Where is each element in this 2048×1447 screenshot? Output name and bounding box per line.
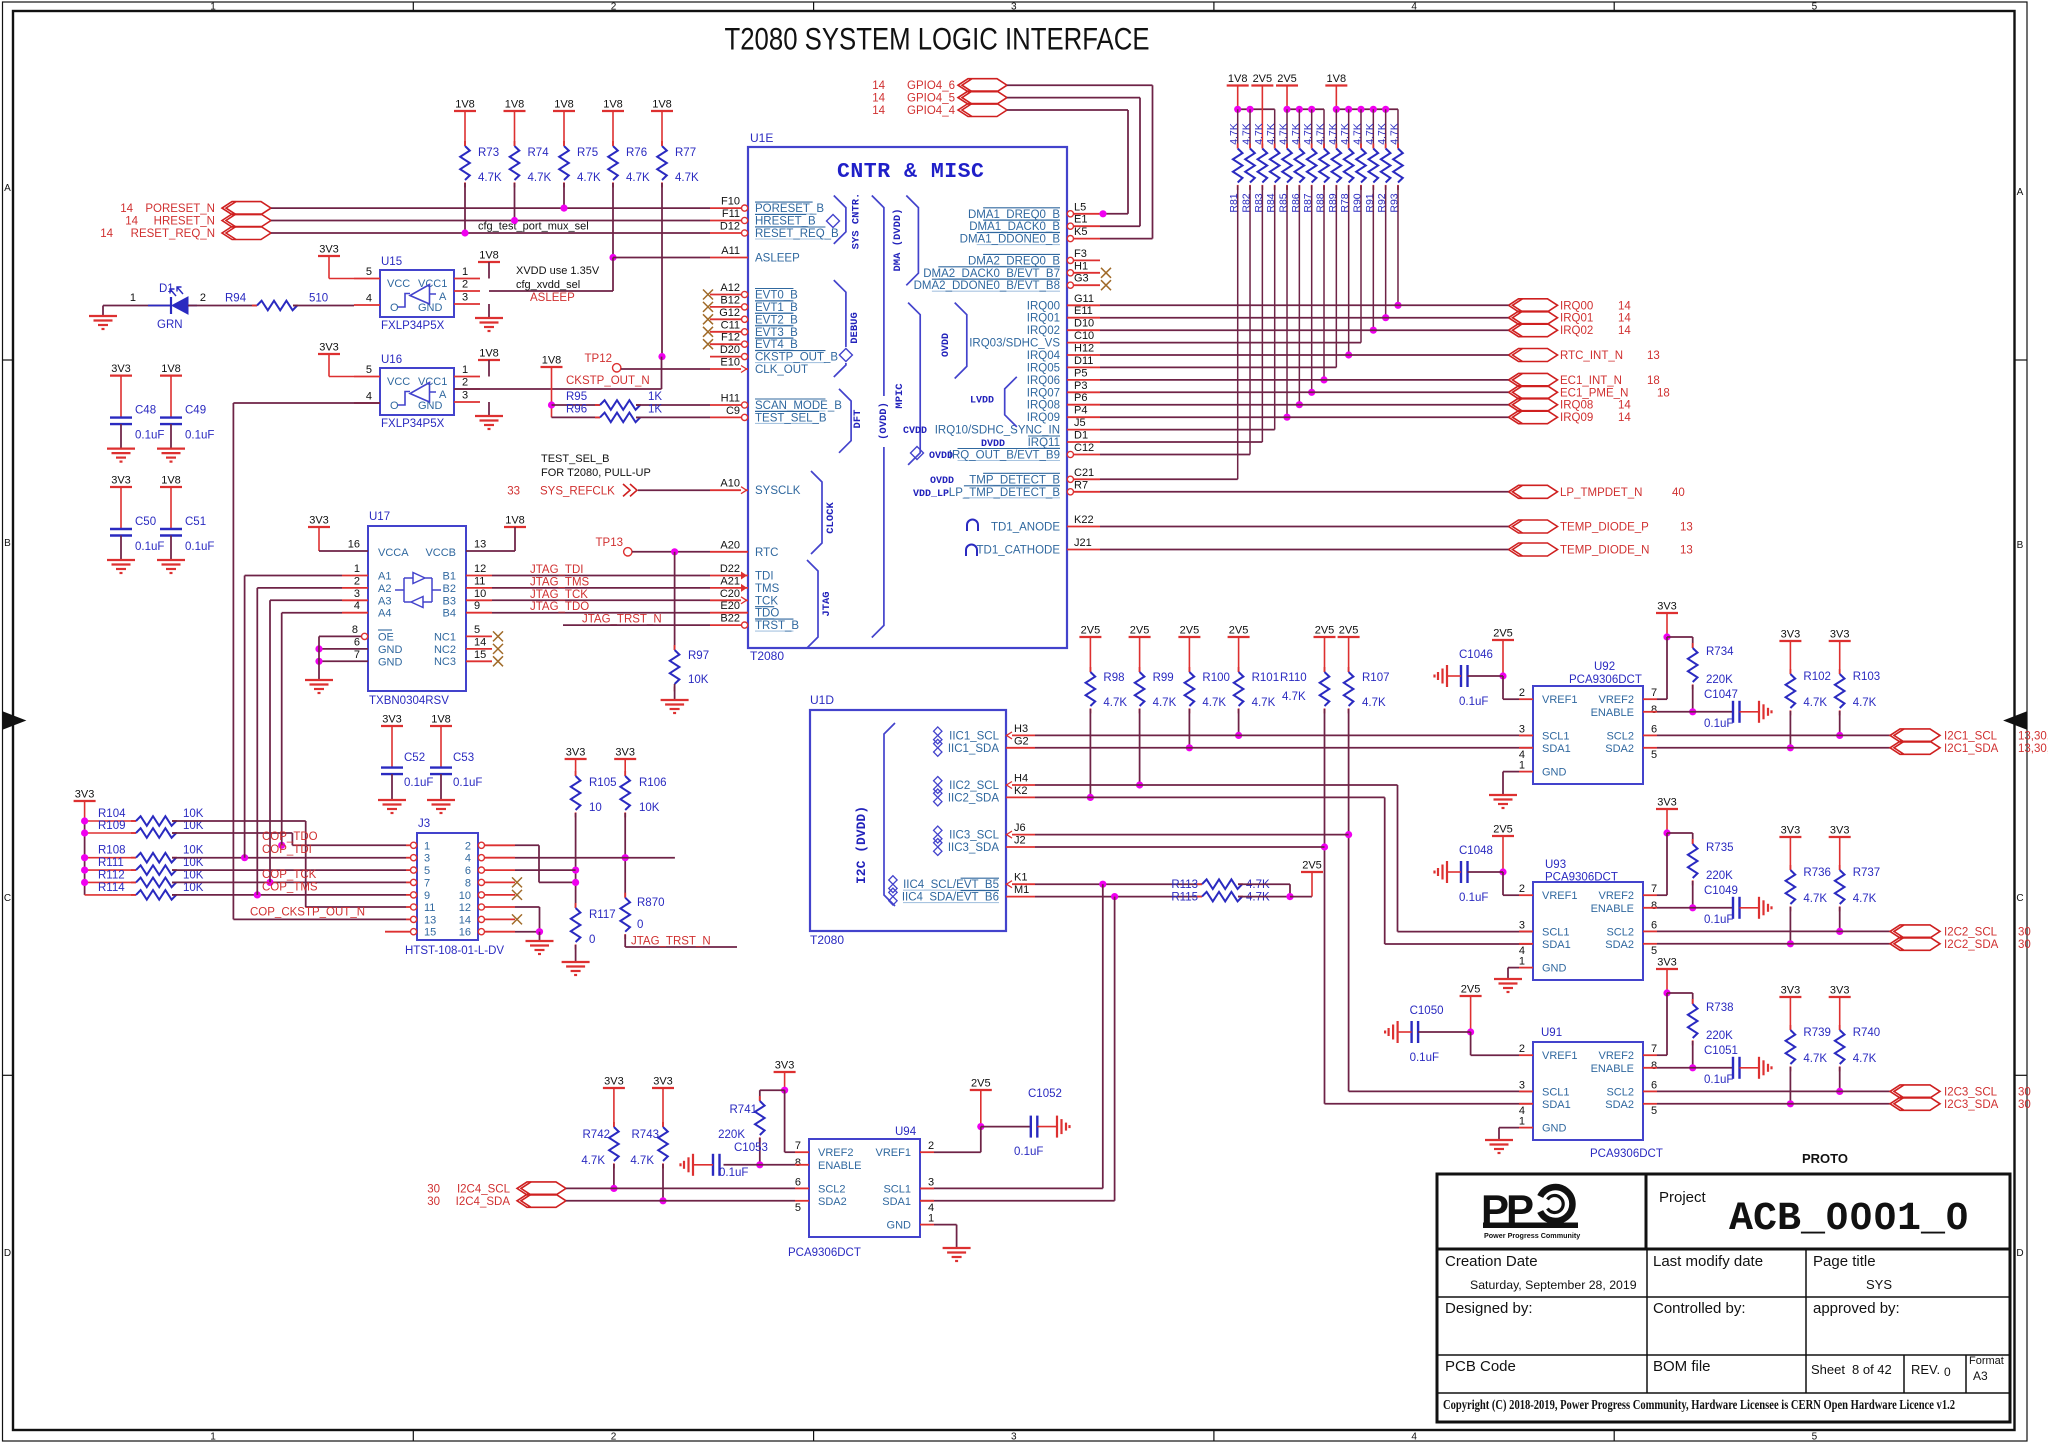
T2080 I2C block U1D	[810, 710, 1006, 931]
wire TP13 to RTC	[632, 551, 710, 553]
svg-text:VREF2: VREF2	[1599, 890, 1634, 902]
svg-text:1V8: 1V8	[505, 99, 525, 111]
svg-text:4.7K: 4.7K	[1376, 123, 1388, 145]
svg-text:14: 14	[872, 80, 885, 92]
svg-text:NC1: NC1	[434, 631, 456, 643]
U1E group bracket MPIC	[908, 303, 920, 465]
U15 pin 4	[354, 304, 380, 306]
U1E pin A10 SYSCLK	[710, 489, 748, 491]
resistor R73 4.7K	[464, 141, 466, 146]
svg-text:U92: U92	[1594, 661, 1615, 673]
U17 pin 3 A3	[342, 599, 368, 601]
U1E TD1_CATHODE cap symbol	[966, 545, 977, 557]
resistor R103 4.7K	[1839, 669, 1841, 674]
svg-text:R95: R95	[566, 391, 587, 403]
U1E pin P5 IRQ06	[1067, 379, 1100, 381]
COP connector J3 HTST-108-01-L-DV	[417, 833, 478, 940]
svg-text:1V8: 1V8	[652, 99, 672, 111]
U1E pin J5 IRQ10/SDHC_SYNC_IN	[1067, 429, 1100, 431]
J3 pin 5	[406, 869, 411, 871]
resistor R99 4.7K	[1139, 667, 1141, 672]
svg-text:0: 0	[1944, 1365, 1951, 1379]
J3 pin 2	[484, 844, 515, 846]
resistor R77 4.7K	[661, 141, 663, 146]
svg-text:K2: K2	[1014, 785, 1027, 797]
svg-text:4.7K: 4.7K	[1803, 1053, 1827, 1065]
svg-text:A12: A12	[720, 282, 740, 294]
svg-text:7: 7	[1651, 1043, 1657, 1055]
svg-text:0.1uF: 0.1uF	[1410, 1052, 1439, 1064]
svg-text:2: 2	[462, 279, 468, 291]
svg-text:T2080 SYSTEM LOGIC INTERFACE: T2080 SYSTEM LOGIC INTERFACE	[725, 21, 1150, 57]
svg-text:TD1_CATHODE: TD1_CATHODE	[977, 545, 1061, 557]
svg-text:GND: GND	[1542, 963, 1567, 975]
svg-text:2V5: 2V5	[1081, 625, 1101, 637]
svg-text:SDA2: SDA2	[1605, 939, 1634, 951]
svg-text:0.1uF: 0.1uF	[135, 430, 164, 442]
U17 pin 2 A2	[342, 587, 368, 589]
svg-text:DMA2_DDONE0_B/EVT_B8: DMA2_DDONE0_B/EVT_B8	[914, 280, 1060, 292]
U1E group bracket OVDD (IRQ00-05)	[955, 303, 967, 379]
resistor R85 4.7K pull-up	[1286, 109, 1288, 148]
wire R90 to IRQ row	[1360, 186, 1362, 343]
svg-text:2: 2	[1519, 687, 1525, 699]
svg-text:C1049: C1049	[1704, 885, 1738, 897]
svg-text:C11: C11	[721, 319, 740, 331]
wire 3V3 to U91 VREF2	[1666, 993, 1668, 1055]
svg-text:L5: L5	[1074, 201, 1086, 213]
wire R96 to TEST_SEL_B	[636, 416, 710, 418]
svg-text:TCK: TCK	[755, 595, 778, 607]
svg-text:PCB Code: PCB Code	[1445, 1358, 1516, 1375]
wire GPIO4_5	[1007, 97, 1140, 99]
svg-text:ENABLE: ENABLE	[1591, 1063, 1634, 1075]
svg-text:3V3: 3V3	[775, 1060, 795, 1072]
svg-text:R741: R741	[730, 1104, 758, 1116]
J3 pin 8	[484, 881, 515, 883]
svg-text:15: 15	[424, 927, 436, 939]
svg-text:4.7K: 4.7K	[1302, 123, 1314, 145]
svg-text:C12: C12	[1074, 442, 1094, 454]
wire R102 down	[1789, 711, 1791, 748]
svg-text:IIC4_SDA/EVT_B6: IIC4_SDA/EVT_B6	[902, 892, 999, 904]
wire to RTC_INT_N flag	[1100, 354, 1509, 356]
resistor R735 220K	[1667, 832, 1693, 834]
svg-text:IRQ_OUT_B/EVT_B9: IRQ_OUT_B/EVT_B9	[949, 450, 1060, 462]
svg-text:J3: J3	[418, 818, 430, 830]
svg-text:U93: U93	[1545, 859, 1566, 871]
svg-text:GRN: GRN	[157, 319, 183, 331]
svg-text:IRQ02: IRQ02	[1027, 325, 1060, 337]
U1E pin G3 DMA2_DDONE0_B/EVT_B8	[1073, 284, 1100, 286]
svg-text:H4: H4	[1014, 773, 1028, 785]
wire R735 to ENABLE	[1692, 881, 1694, 908]
svg-text:0.1uF: 0.1uF	[404, 777, 433, 789]
svg-text:D12: D12	[720, 221, 740, 233]
title block logo/project divider	[1645, 1174, 1648, 1249]
svg-text:LP_TMPDET_N: LP_TMPDET_N	[1560, 487, 1642, 499]
svg-text:1: 1	[928, 1213, 934, 1225]
svg-text:A20: A20	[720, 539, 740, 551]
resistor R97 10K pulldown on RTC	[674, 552, 676, 650]
wire IIC4_SCL (K1)	[1035, 883, 1202, 885]
ground (U15 pin3)	[488, 304, 490, 318]
U1E pin B12 EVT1_B	[710, 306, 742, 308]
wire R87 to IRQ row	[1311, 186, 1313, 393]
svg-text:I2C1_SDA: I2C1_SDA	[1944, 743, 1999, 755]
svg-text:F11: F11	[722, 208, 740, 220]
U16 pin 5	[354, 376, 380, 378]
svg-text:4.7K: 4.7K	[1228, 123, 1240, 145]
svg-text:2: 2	[611, 1432, 617, 1443]
wire R738 to ENABLE	[1692, 1041, 1694, 1068]
svg-text:R96: R96	[566, 404, 587, 416]
wire R737 down	[1839, 907, 1841, 931]
svg-text:K1: K1	[1014, 872, 1027, 884]
wire U17 OE/GND to ground	[318, 636, 320, 680]
svg-text:FOR T2080, PULL-UP: FOR T2080, PULL-UP	[541, 467, 651, 479]
svg-text:R742: R742	[583, 1129, 611, 1141]
svg-text:VREF2: VREF2	[818, 1147, 853, 1159]
svg-text:SCAN_MODE_B: SCAN_MODE_B	[755, 400, 842, 412]
svg-text:1: 1	[462, 364, 468, 376]
svg-text:O: O	[390, 302, 399, 314]
svg-text:12: 12	[474, 563, 486, 575]
wire RESET_REQ_N	[271, 232, 710, 234]
svg-text:J5: J5	[1074, 417, 1086, 429]
svg-text:4.7K: 4.7K	[1241, 123, 1253, 145]
svg-text:IRQ09: IRQ09	[1027, 412, 1060, 424]
svg-text:4.7K: 4.7K	[1246, 892, 1270, 904]
svg-text:P6: P6	[1074, 392, 1087, 404]
ground (U94)	[943, 1247, 971, 1249]
wire ASLEEP pin A11	[613, 257, 710, 259]
capacitor C1049 0.1uF	[1732, 897, 1734, 919]
hex flag LP_TMPDET_N	[1509, 485, 1558, 498]
svg-text:11: 11	[474, 575, 485, 587]
wire JTAG_TCK	[492, 599, 710, 601]
ground (U92)	[1489, 794, 1517, 796]
svg-text:R740: R740	[1853, 1027, 1881, 1039]
svg-text:1V8: 1V8	[542, 355, 562, 367]
svg-text:A: A	[2017, 187, 2024, 198]
svg-text:2V5: 2V5	[1339, 625, 1359, 637]
svg-text:GND: GND	[378, 656, 403, 668]
svg-text:C1050: C1050	[1410, 1005, 1444, 1017]
svg-text:TEST_SEL_B: TEST_SEL_B	[755, 412, 827, 424]
svg-text:4.7K: 4.7K	[1339, 123, 1351, 145]
svg-text:3V3: 3V3	[382, 714, 402, 726]
wire IRQ row to R81	[1100, 478, 1238, 480]
svg-text:R76: R76	[626, 147, 647, 159]
svg-text:R870: R870	[637, 897, 665, 909]
resistor R111 10K	[85, 869, 136, 871]
svg-text:2: 2	[465, 840, 471, 852]
I2C level shifter U91 PCA9306DCT	[1533, 1042, 1643, 1140]
svg-text:4.7K: 4.7K	[1803, 697, 1827, 709]
U1E pin A21 TMS	[710, 587, 748, 589]
svg-text:VCC: VCC	[387, 376, 410, 388]
wire to TEMP_DIODE_N flag	[1100, 549, 1509, 551]
svg-text:I2C2_SCL: I2C2_SCL	[1944, 926, 1998, 938]
svg-text:0.1uF: 0.1uF	[719, 1167, 748, 1179]
svg-text:1: 1	[1519, 760, 1525, 772]
svg-text:VREF1: VREF1	[1542, 694, 1577, 706]
U1E pin A11 ASLEEP	[710, 257, 748, 259]
svg-text:4.7K: 4.7K	[528, 172, 552, 184]
svg-text:3V3: 3V3	[319, 342, 339, 354]
wire IIC2_SDA (K2)	[1035, 796, 1385, 798]
U1E group bracket DMA (DVDD)	[906, 196, 918, 286]
svg-text:C48: C48	[135, 405, 156, 417]
U1E pin H1 DMA2_DACK0_B/EVT_B7	[1073, 272, 1100, 274]
svg-text:10: 10	[459, 890, 471, 902]
ground (D1 anode side)	[102, 306, 104, 317]
svg-text:4: 4	[354, 600, 360, 612]
svg-text:R99: R99	[1153, 672, 1174, 684]
resistor R78 4.7K pull-up	[1348, 109, 1350, 148]
J3 pin 4	[484, 857, 515, 859]
svg-text:4.7K: 4.7K	[1282, 691, 1306, 703]
svg-text:TDI: TDI	[755, 571, 774, 583]
wire IIC1_SCL (H3 to U92 SCL1)	[1035, 734, 1533, 736]
svg-text:10K: 10K	[183, 869, 204, 881]
svg-text:SYSCLK: SYSCLK	[755, 485, 801, 497]
svg-text:2: 2	[611, 2, 617, 13]
wire 2V5 to U91 VREF1	[1470, 1032, 1472, 1055]
svg-text:IIC2_SCL: IIC2_SCL	[949, 780, 999, 792]
svg-text:D20: D20	[720, 344, 740, 356]
svg-text:0.1uF: 0.1uF	[453, 777, 482, 789]
U17 pin 5 NC1	[466, 635, 492, 637]
resistor R98 4.7K	[1089, 667, 1091, 672]
wire 2V5 to U92 VREF1	[1502, 676, 1504, 699]
svg-text:SCL2: SCL2	[1606, 1086, 1634, 1098]
capacitor C53 0.1uF	[430, 766, 452, 768]
svg-text:1V8: 1V8	[455, 99, 475, 111]
svg-text:3V3: 3V3	[566, 747, 586, 759]
svg-text:(OVDD): (OVDD)	[878, 402, 890, 440]
svg-text:C1047: C1047	[1704, 689, 1738, 701]
hex flag I2C4_SCL	[517, 1182, 566, 1195]
I2C level shifter U94 PCA9306DCT	[809, 1139, 920, 1237]
U1E input diamond HRESET	[827, 215, 840, 228]
svg-text:E20: E20	[720, 600, 740, 612]
svg-text:R101: R101	[1252, 672, 1280, 684]
svg-text:DMA1_DDONE0_B: DMA1_DDONE0_B	[960, 234, 1061, 246]
U1D pin J2 IIC3_SDA	[1006, 846, 1035, 848]
svg-text:C51: C51	[185, 516, 206, 528]
U16 pin 1	[454, 376, 480, 378]
svg-text:ENABLE: ENABLE	[818, 1160, 861, 1172]
svg-text:0.1uF: 0.1uF	[135, 541, 164, 553]
svg-text:U1D: U1D	[810, 693, 834, 707]
svg-text:R738: R738	[1706, 1002, 1734, 1014]
resistor R74 4.7K	[514, 141, 516, 146]
ground (at C1050)	[1396, 1021, 1398, 1043]
hex flag EC1_PME_N	[1509, 386, 1558, 399]
svg-text:14: 14	[872, 93, 885, 105]
wire R94 to U15 pin4	[293, 305, 354, 307]
wire GPIO4_6	[1007, 84, 1153, 86]
svg-text:220K: 220K	[1706, 674, 1733, 686]
hex flag GPIO4_6	[958, 79, 1007, 92]
svg-text:4.7K: 4.7K	[1853, 1053, 1877, 1065]
svg-text:CKSTP_OUT_N: CKSTP_OUT_N	[566, 375, 650, 387]
U1E group bracket LVDD (IRQ06-09)	[1005, 377, 1017, 427]
svg-text:R77: R77	[675, 147, 696, 159]
svg-text:SYS: SYS	[1866, 1277, 1892, 1292]
svg-text:IRQ07: IRQ07	[1027, 387, 1060, 399]
resistor R87 4.7K pull-up	[1311, 109, 1313, 148]
U1E pin C10 IRQ03/SDHC_VS	[1067, 342, 1100, 344]
svg-text:7: 7	[354, 649, 360, 661]
hex flag I2C1_SDA	[1890, 741, 1940, 754]
svg-text:COP_TCK: COP_TCK	[262, 869, 317, 881]
wire U16 pin4 to COP header	[233, 402, 380, 404]
wire R74 to HRESET_N	[514, 183, 516, 221]
svg-text:Format: Format	[1969, 1355, 2004, 1367]
svg-text:C: C	[2016, 893, 2023, 904]
border zone ticks bottom	[412, 1430, 414, 1441]
wire R99 to I2C row	[1139, 709, 1141, 785]
svg-text:LP_TMP_DETECT_B: LP_TMP_DETECT_B	[949, 487, 1061, 499]
svg-text:R743: R743	[632, 1129, 660, 1141]
svg-text:30: 30	[2018, 1086, 2031, 1098]
svg-text:30: 30	[2018, 926, 2031, 938]
svg-text:1: 1	[210, 1432, 216, 1443]
svg-text:BOM file: BOM file	[1653, 1358, 1711, 1375]
svg-text:OVDD: OVDD	[930, 476, 954, 487]
wire J3 pin16 to ground	[515, 931, 540, 933]
wire U17.A3 column	[269, 600, 271, 882]
svg-text:EC1_INT_N: EC1_INT_N	[1560, 375, 1622, 387]
svg-text:Designed by:: Designed by:	[1445, 1300, 1533, 1317]
svg-text:GND: GND	[1542, 767, 1567, 779]
svg-text:R104: R104	[98, 808, 126, 820]
U1E pin D22 TDI	[710, 575, 748, 577]
ground (at C1049)	[1758, 897, 1760, 919]
svg-text:1V8: 1V8	[1327, 73, 1347, 85]
capacitor C1051 0.1uF	[1732, 1057, 1734, 1079]
svg-text:I2C3_SDA: I2C3_SDA	[1944, 1099, 1999, 1111]
U1E pin K22 TD1_ANODE	[1067, 526, 1100, 528]
svg-text:4.7K: 4.7K	[1252, 697, 1276, 709]
svg-text:1: 1	[1519, 956, 1525, 968]
resistor R101 4.7K	[1238, 667, 1240, 672]
U17 pin 14 NC2	[466, 648, 492, 650]
U1E pin F11 HRESET_B	[710, 220, 742, 222]
svg-text:I2C2_SDA: I2C2_SDA	[1944, 939, 1999, 951]
no-connect EVT0_B	[703, 290, 713, 300]
U1E pin G11 IRQ00	[1067, 304, 1100, 306]
svg-text:VREF1: VREF1	[1542, 1050, 1577, 1062]
svg-text:SCL1: SCL1	[1542, 926, 1570, 938]
resistor R870 0	[624, 893, 626, 898]
svg-text:B4: B4	[443, 608, 456, 620]
resistor R114 10K	[85, 894, 136, 896]
svg-text:3: 3	[354, 588, 360, 600]
no-connect EVT4_B	[703, 339, 713, 349]
svg-text:5: 5	[1812, 1432, 1818, 1443]
wire R95 to SCAN_MODE_B	[636, 404, 710, 406]
capacitor C1047 0.1uF	[1732, 701, 1734, 723]
svg-text:R735: R735	[1706, 842, 1734, 854]
svg-text:3V3: 3V3	[1781, 985, 1801, 997]
wire R100 to I2C row	[1188, 709, 1190, 748]
svg-text:TMP_DETECT_B: TMP_DETECT_B	[969, 474, 1060, 486]
hex flag IRQ00	[1509, 299, 1558, 312]
resistor R109 10K	[85, 832, 136, 834]
svg-text:2V5: 2V5	[1461, 984, 1481, 996]
svg-text:IIC1_SDA: IIC1_SDA	[948, 743, 999, 755]
wire IRQ row to R83	[1100, 441, 1262, 443]
svg-text:COP_TMS: COP_TMS	[262, 882, 318, 894]
ground (at C1051)	[1758, 1057, 1760, 1079]
svg-text:13: 13	[1680, 545, 1693, 557]
capacitor C1052 0.1uF	[981, 1126, 1031, 1128]
svg-text:14: 14	[120, 203, 133, 215]
no-connect J3 pin8	[512, 877, 522, 887]
T2080 CNTR & MISC block U1E	[748, 147, 1067, 648]
svg-text:4.7K: 4.7K	[1853, 697, 1877, 709]
svg-text:Copyright (C) 2018-2019, Power: Copyright (C) 2018-2019, Power Progress …	[1443, 1397, 1955, 1412]
svg-text:I2C3_SCL: I2C3_SCL	[1944, 1086, 1998, 1098]
U15 pin 1	[454, 278, 480, 280]
svg-text:IRQ10/SDHC_SYNC_IN: IRQ10/SDHC_SYNC_IN	[935, 425, 1060, 437]
svg-text:0.1uF: 0.1uF	[1704, 1074, 1733, 1086]
svg-text:C50: C50	[135, 516, 156, 528]
svg-text:14: 14	[125, 215, 138, 227]
resistor R86 4.7K pull-up	[1298, 109, 1300, 148]
svg-text:IRQ01: IRQ01	[1027, 313, 1060, 325]
J3 pin 10	[484, 894, 515, 896]
svg-text:3V3: 3V3	[1830, 825, 1850, 837]
resistor R91 4.7K pull-up	[1372, 109, 1374, 148]
wire U93 SDA2 to flag	[1657, 943, 1890, 945]
svg-text:14: 14	[474, 636, 486, 648]
resistor R81 4.7K pull-up	[1237, 109, 1239, 148]
svg-text:3: 3	[1011, 2, 1017, 13]
svg-text:I2C4_SDA: I2C4_SDA	[456, 1196, 511, 1208]
svg-text:6: 6	[1651, 919, 1657, 931]
svg-text:0.1uF: 0.1uF	[1459, 696, 1488, 708]
U1E group bracket DEBUG	[834, 280, 846, 347]
hex flag I2C4_SDA	[517, 1194, 566, 1207]
svg-text:R109: R109	[98, 820, 126, 832]
svg-text:IRQ08: IRQ08	[1560, 400, 1593, 412]
svg-text:D1: D1	[1074, 430, 1088, 442]
svg-text:NC2: NC2	[434, 644, 456, 656]
svg-text:Project: Project	[1659, 1189, 1707, 1206]
svg-text:IRQ02: IRQ02	[1560, 325, 1593, 337]
svg-text:2: 2	[200, 292, 206, 304]
svg-text:JTAG_TDO: JTAG_TDO	[530, 601, 589, 613]
U17 buffer symbol	[395, 573, 441, 608]
svg-text:SYS CNTR.: SYS CNTR.	[851, 193, 863, 250]
svg-text:3V3: 3V3	[111, 475, 131, 487]
svg-text:A10: A10	[720, 478, 740, 490]
svg-text:U1E: U1E	[750, 131, 773, 145]
wire IRQ row to R90	[1100, 342, 1361, 344]
wire U17.A2 column	[256, 588, 258, 895]
svg-text:3V3: 3V3	[615, 747, 635, 759]
svg-text:A11: A11	[721, 245, 740, 257]
svg-text:F10: F10	[721, 196, 740, 208]
wire 2V5 to U94 VREF1	[980, 1127, 982, 1153]
J3 pin 11	[406, 906, 411, 908]
hex flag IRQ02	[1509, 324, 1558, 337]
